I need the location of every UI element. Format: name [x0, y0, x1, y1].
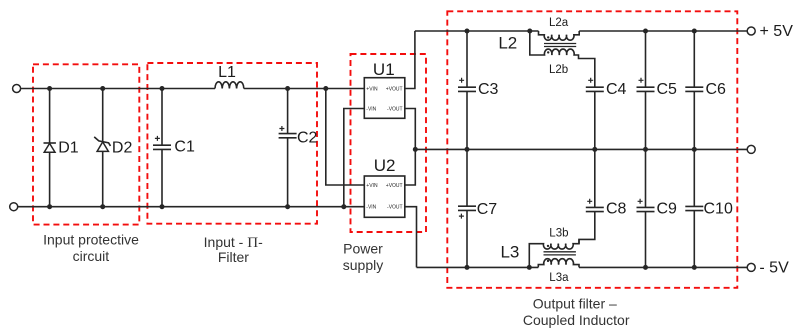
svg-text:U2: U2 — [374, 156, 396, 175]
svg-text:+VIN: +VIN — [366, 183, 378, 189]
svg-text:L3a: L3a — [549, 272, 569, 284]
svg-text:Output filter –: Output filter – — [533, 295, 617, 311]
svg-text:+ 5V: + 5V — [760, 23, 794, 40]
svg-text:C9: C9 — [657, 201, 678, 218]
svg-text:Input protective: Input protective — [43, 231, 139, 247]
svg-text:C2: C2 — [297, 129, 318, 146]
svg-text:L2: L2 — [498, 33, 517, 52]
svg-text:supply: supply — [343, 257, 383, 273]
svg-text:U1: U1 — [373, 60, 395, 79]
svg-text:C5: C5 — [657, 81, 678, 98]
svg-text:L1: L1 — [218, 64, 236, 81]
svg-text:+VOUT: +VOUT — [386, 86, 403, 92]
svg-text:Filter: Filter — [218, 249, 249, 265]
svg-text:Coupled Inductor: Coupled Inductor — [523, 312, 630, 328]
svg-text:C6: C6 — [706, 81, 727, 98]
svg-text:circuit: circuit — [73, 248, 110, 264]
svg-text:C7: C7 — [477, 201, 498, 218]
svg-text:Power: Power — [343, 240, 383, 256]
svg-text:-VOUT: -VOUT — [387, 106, 403, 112]
svg-text:C10: C10 — [704, 201, 733, 218]
svg-text:-VIN: -VIN — [366, 106, 376, 112]
svg-text:C8: C8 — [606, 201, 627, 218]
svg-text:L3: L3 — [500, 243, 519, 262]
svg-text:L2a: L2a — [549, 17, 569, 29]
svg-text:+VIN: +VIN — [366, 86, 378, 92]
svg-text:L2b: L2b — [549, 64, 568, 76]
svg-text:L3b: L3b — [549, 228, 568, 240]
svg-text:- 5V: - 5V — [759, 259, 789, 276]
svg-text:-VIN: -VIN — [366, 205, 376, 211]
svg-text:+VOUT: +VOUT — [386, 183, 403, 189]
svg-text:C1: C1 — [174, 138, 195, 155]
svg-text:C3: C3 — [478, 81, 499, 98]
svg-text:C4: C4 — [606, 81, 627, 98]
svg-text:-VOUT: -VOUT — [387, 205, 403, 211]
svg-text:D2: D2 — [112, 139, 133, 156]
svg-text:D1: D1 — [58, 139, 79, 156]
